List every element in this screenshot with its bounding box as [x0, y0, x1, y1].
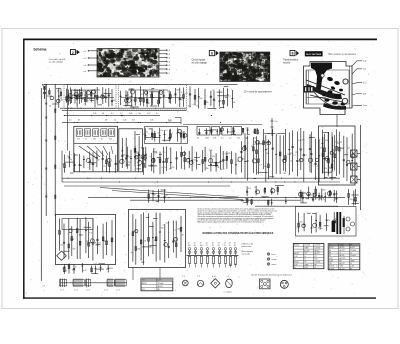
svg-text:HT: HT	[329, 255, 331, 257]
svg-text:2x: 2x	[315, 267, 317, 269]
svg-text:am: am	[42, 286, 45, 288]
IF transformer can outline A	[197, 127, 210, 136]
svg-text:2n2: 2n2	[256, 172, 259, 174]
antenna feed vertical line A	[45, 84, 47, 216]
svg-text:2x: 2x	[350, 263, 352, 265]
svg-text:125mW: 125mW	[315, 262, 321, 264]
svg-text:BF: BF	[350, 268, 352, 270]
svg-text:560: 560	[323, 190, 326, 192]
svg-text:4 bl: 4 bl	[363, 93, 367, 95]
svg-text:rouge: rouge	[272, 259, 277, 261]
svg-text:560: 560	[113, 100, 116, 102]
svg-text:polarisation: polarisation	[242, 245, 252, 248]
table transistor voltages	[293, 244, 324, 270]
antenna matching input components	[47, 88, 62, 108]
PCB photograph: FM RF block solder side	[94, 47, 163, 80]
transformer interior hookup wires	[306, 80, 345, 105]
legend symbol potentiometer top view circle 2	[197, 276, 204, 286]
tone control network components	[246, 186, 284, 197]
wire from AF box down to switch row A	[132, 268, 134, 281]
volume control coupling components	[148, 189, 168, 203]
svg-text:1 br: 1 br	[363, 68, 367, 71]
svg-text:2n2: 2n2	[107, 165, 110, 167]
svg-text:220: 220	[242, 159, 245, 161]
labels row between tuner buses	[66, 113, 172, 121]
long wire lower routing to power supply	[255, 205, 338, 207]
svg-text:68: 68	[154, 194, 156, 196]
svg-text:10n: 10n	[138, 113, 141, 115]
table puissance des transistors	[141, 278, 173, 291]
svg-text:0,47: 0,47	[168, 120, 172, 122]
svg-text:68: 68	[98, 159, 100, 161]
right vertical rail to output connectors	[360, 125, 362, 210]
svg-text:B 30: B 30	[212, 276, 216, 278]
svg-text:330: 330	[349, 199, 352, 201]
svg-text:1 2 3: 1 2 3	[116, 290, 120, 292]
svg-text:4,7: 4,7	[185, 159, 188, 161]
IF transformer can outline D	[234, 127, 242, 136]
section label box 8 with arrow	[290, 51, 299, 56]
svg-text:47k: 47k	[129, 96, 132, 98]
bus wire AM line	[62, 122, 181, 124]
driver stage components	[303, 130, 339, 182]
detector and AGC components	[182, 146, 239, 175]
scan noise speckle overlay	[26, 41, 375, 296]
svg-text:68: 68	[102, 113, 104, 115]
svg-text:15k: 15k	[329, 168, 332, 170]
power transformer mechanical drawing outline	[304, 62, 353, 115]
svg-text:5p: 5p	[131, 252, 133, 254]
schematic border frame left edge	[23, 39, 25, 299]
svg-text:8,2: 8,2	[323, 198, 326, 200]
svg-text:0,1: 0,1	[221, 138, 223, 140]
svg-text:15k: 15k	[225, 97, 228, 99]
svg-text:BF: BF	[340, 260, 342, 262]
FM antenna input stage components	[58, 88, 82, 108]
third IF transformer row internals	[198, 127, 258, 135]
svg-text:0,1: 0,1	[156, 113, 159, 115]
svg-text:Schéma: Schéma	[33, 47, 46, 51]
wire from AF box down to switch row B	[159, 268, 161, 281]
PCB photograph: main board component side	[217, 50, 272, 84]
svg-text:3,3k: 3,3k	[72, 270, 75, 272]
svg-text:1 2 3: 1 2 3	[86, 290, 90, 292]
svg-text:1/2 = point de raccordement: 1/2 = point de raccordement	[244, 90, 272, 93]
svg-text:secteur: secteur	[283, 62, 291, 65]
coil pack labels row	[77, 139, 112, 141]
svg-text:HT: HT	[304, 262, 306, 264]
svg-text:0,3W: 0,3W	[158, 280, 162, 282]
svg-text:1k: 1k	[139, 166, 141, 168]
legend symbol transistor socket square with holes	[260, 279, 271, 289]
svg-text:470: 470	[77, 139, 80, 141]
svg-text:2 gr: 2 gr	[363, 60, 367, 63]
svg-text:0,47: 0,47	[147, 113, 151, 115]
svg-text:560: 560	[67, 156, 70, 158]
svg-text:1k: 1k	[101, 95, 103, 97]
svg-text:0,3W: 0,3W	[329, 260, 333, 262]
FM RF amplifier stage components	[67, 87, 115, 107]
svg-text:82: 82	[340, 142, 342, 144]
svg-text:560: 560	[161, 228, 164, 230]
vertical test point wire right of IF cans	[271, 118, 278, 136]
svg-text:2x: 2x	[350, 253, 352, 255]
svg-text:BF: BF	[350, 245, 352, 247]
black header label BLOC SECTEUR	[305, 51, 323, 56]
svg-text:0,47: 0,47	[62, 269, 66, 271]
mains voltage selector block hatched	[304, 86, 314, 93]
svg-text:2n2: 2n2	[164, 167, 167, 169]
capacitor legend caption lines left group	[242, 244, 254, 256]
svg-text:10n: 10n	[160, 130, 163, 132]
svg-text:0,1: 0,1	[253, 132, 256, 134]
svg-text:1,2: 1,2	[328, 196, 331, 198]
top rail of tuner band	[44, 84, 238, 86]
internal rail inside FM IF shield	[121, 97, 185, 99]
svg-text:C = métal: C = métal	[224, 290, 232, 293]
legend symbol electrolytic can	[226, 276, 233, 288]
svg-text:BLOC SECTEUR: BLOC SECTEUR	[306, 54, 322, 56]
svg-text:BC148: BC148	[329, 266, 334, 268]
coil pack tuning arrows diagonals	[79, 146, 113, 158]
svg-text:NOMENCLATURE DES CONDENSATEURS: NOMENCLATURE DES CONDENSATEURS ÉLECTROCH…	[203, 232, 274, 235]
long diagonal routing wire to switch bank 2	[112, 191, 243, 200]
svg-text:1W: 1W	[304, 253, 307, 255]
svg-text:47k: 47k	[172, 167, 175, 169]
svg-text:2x: 2x	[294, 259, 296, 261]
short top rail segment in FM front-end	[70, 89, 100, 91]
FM IF output link components	[188, 86, 235, 108]
svg-text:1,2: 1,2	[167, 91, 170, 93]
legend symbol potentiometer top view circle 1	[182, 276, 188, 286]
svg-text:4,7: 4,7	[101, 139, 103, 141]
coil pack box 2 oscillator coils	[119, 129, 143, 172]
pin leader lines and labels left of FM board photo	[84, 50, 98, 73]
svg-text:8: 8	[292, 52, 294, 56]
svg-text:330: 330	[283, 173, 286, 175]
svg-text:68: 68	[251, 146, 253, 148]
switch assembly symbol row bottom left	[60, 279, 128, 288]
svg-text:125mW: 125mW	[304, 245, 310, 247]
svg-text:1k: 1k	[65, 271, 67, 273]
svg-text:0,47: 0,47	[221, 169, 225, 171]
svg-text:330: 330	[151, 90, 154, 92]
svg-text:5p: 5p	[182, 132, 184, 134]
svg-text:330: 330	[245, 198, 248, 200]
svg-text:3,3k: 3,3k	[213, 138, 216, 140]
svg-text:0,1: 0,1	[305, 155, 308, 157]
svg-text:4,7: 4,7	[181, 92, 184, 94]
svg-text:5p: 5p	[290, 160, 292, 162]
svg-text:82: 82	[335, 218, 337, 220]
svg-text:4,7: 4,7	[259, 164, 262, 166]
svg-text:2n2: 2n2	[103, 166, 106, 168]
oscillator coil components	[121, 131, 141, 169]
transformer lead wires and terminal labels	[352, 60, 368, 107]
decoder diamond bridge symbol	[57, 251, 67, 260]
svg-text:560: 560	[225, 153, 228, 155]
svg-text:8,2: 8,2	[220, 100, 223, 102]
long wire second routing line	[130, 199, 300, 201]
mains transformer symbol thick bars	[337, 212, 340, 234]
svg-text:560: 560	[266, 153, 269, 155]
svg-text:100k: 100k	[209, 150, 213, 152]
labels under IF can row	[197, 138, 256, 140]
svg-text:Électrolytique: Électrolytique	[242, 250, 254, 253]
svg-text:BC148: BC148	[294, 245, 299, 247]
svg-text:160: 160	[200, 245, 203, 247]
svg-text:8,2: 8,2	[165, 195, 168, 197]
svg-text:0,1: 0,1	[150, 156, 153, 158]
svg-text:220: 220	[128, 162, 131, 164]
rectifier diode circles	[344, 216, 355, 234]
svg-text:5p: 5p	[114, 120, 116, 122]
svg-text:100k: 100k	[287, 154, 291, 156]
power supply section outline	[296, 207, 357, 237]
svg-text:25: 25	[229, 245, 231, 247]
svg-text:82: 82	[182, 234, 184, 236]
svg-text:10n: 10n	[123, 154, 126, 156]
svg-text:15k: 15k	[237, 138, 240, 140]
svg-text:2x: 2x	[329, 245, 331, 247]
svg-text:Transformateur: Transformateur	[283, 59, 299, 62]
svg-text:Bloc secteur vu de dessous: Bloc secteur vu de dessous	[329, 53, 357, 56]
svg-text:1,2: 1,2	[229, 138, 231, 140]
svg-text:100k: 100k	[137, 249, 141, 251]
antenna symbol	[43, 85, 47, 100]
audio preamplifier components	[238, 128, 305, 182]
svg-text:BF: BF	[329, 250, 331, 252]
caption text for main board photo	[192, 59, 208, 65]
svg-text:125mW: 125mW	[350, 250, 356, 252]
svg-text:2n2: 2n2	[166, 223, 169, 225]
transformer terminal lugs black ovals	[322, 76, 345, 108]
transformer winding strap black curved shape	[306, 84, 342, 99]
svg-text:100k: 100k	[95, 245, 99, 247]
svg-text:82: 82	[179, 134, 181, 136]
svg-text:0,47: 0,47	[62, 163, 66, 165]
svg-text:2x: 2x	[340, 253, 342, 255]
svg-text:P 2: P 2	[197, 276, 200, 278]
svg-text:560: 560	[73, 248, 76, 250]
svg-text:125mW: 125mW	[158, 283, 164, 285]
svg-text:1,2: 1,2	[66, 113, 69, 115]
transformer clamp bracket large black shape	[311, 63, 332, 94]
svg-text:25: 25	[224, 245, 226, 247]
svg-text:4,7: 4,7	[165, 130, 168, 132]
stereo decoder components	[59, 217, 113, 260]
svg-text:4,7: 4,7	[163, 225, 166, 227]
svg-text:BF: BF	[315, 264, 317, 266]
svg-text:330: 330	[206, 168, 209, 170]
transformer mounting screws white circles	[321, 74, 348, 104]
svg-text:BF: BF	[158, 289, 160, 291]
svg-text:10n: 10n	[93, 139, 96, 141]
svg-text:64: 64	[234, 245, 236, 247]
schematic border frame top edge	[23, 38, 377, 40]
short top rail segment in FM IF shield	[128, 89, 168, 91]
svg-text:2n2: 2n2	[169, 169, 172, 171]
svg-text:470: 470	[228, 153, 231, 155]
svg-text:Vue de dessous des transistors: Vue de dessous des transistors et du red…	[251, 274, 292, 277]
svg-text:vu côté câblage: vu côté câblage	[49, 61, 64, 64]
svg-text:brun: brun	[272, 254, 276, 256]
svg-text:125mW: 125mW	[315, 245, 321, 247]
svg-text:220: 220	[212, 90, 215, 92]
notes paragraph text block	[198, 208, 278, 224]
svg-text:47k: 47k	[60, 244, 63, 246]
caption text for FM circuit board photo	[49, 58, 66, 64]
svg-text:2x: 2x	[350, 258, 352, 260]
svg-text:220: 220	[143, 134, 146, 136]
svg-text:Circuit équipé: Circuit équipé	[192, 59, 207, 62]
FM mixer and oscillator stage components	[120, 86, 188, 108]
svg-text:64: 64	[194, 245, 196, 247]
svg-text:C 5: C 5	[226, 276, 229, 278]
svg-text:82: 82	[126, 98, 128, 100]
svg-text:2x: 2x	[304, 259, 306, 261]
FM IF shield box dashed	[119, 85, 187, 111]
svg-text:P 1: P 1	[182, 276, 185, 278]
svg-text:0,47: 0,47	[184, 93, 188, 95]
section label box 6 with arrow	[209, 51, 218, 56]
coil pack inner trimmer boxes	[74, 129, 117, 144]
audio output stage box	[319, 126, 356, 185]
colour code legend with circled dots	[267, 253, 276, 266]
svg-text:1k: 1k	[136, 153, 138, 155]
svg-text:vue à plat: vue à plat	[242, 253, 251, 256]
svg-text:0,47: 0,47	[83, 270, 87, 272]
svg-text:1,2: 1,2	[293, 155, 296, 157]
output coupling components	[348, 189, 359, 206]
svg-text:220: 220	[129, 156, 132, 158]
mixer oscillator enclosure nested outlines	[62, 151, 340, 187]
svg-text:3,3k: 3,3k	[93, 113, 96, 115]
transformer inner core lamination lines	[306, 66, 350, 108]
svg-text:100k: 100k	[205, 138, 209, 140]
svg-text:10n: 10n	[145, 94, 148, 96]
svg-text:0,1: 0,1	[69, 120, 72, 122]
legend symbol diamond bridge outline	[211, 276, 220, 288]
svg-text:330: 330	[98, 96, 101, 98]
IF strip enclosure box	[145, 127, 188, 144]
svg-text:220: 220	[155, 152, 158, 154]
svg-text:1 2 3: 1 2 3	[104, 290, 108, 292]
svg-text:BF: BF	[329, 253, 331, 255]
svg-text:160: 160	[188, 245, 191, 247]
svg-text:2x: 2x	[294, 267, 296, 269]
antenna feed vertical line B	[54, 84, 56, 216]
long wire mid horizontal routing line	[88, 197, 345, 199]
first IF transformer cluster	[143, 128, 187, 143]
loudspeaker DIN jack symbols column	[351, 150, 361, 183]
left vertical supply rail	[40, 88, 42, 281]
long wire to third IF transformer row	[183, 124, 262, 126]
svg-text:jaune: jaune	[271, 264, 277, 266]
AF amplifier section components	[131, 212, 184, 265]
svg-text:2n2: 2n2	[89, 232, 92, 234]
solder junction dots on bus wires	[64, 108, 316, 199]
svg-text:100k: 100k	[299, 149, 303, 151]
svg-text:10n: 10n	[188, 106, 191, 108]
svg-text:1,2: 1,2	[120, 113, 123, 115]
svg-text:220: 220	[109, 139, 112, 141]
svg-text:3,3k: 3,3k	[324, 168, 327, 170]
transformer bottom terminal strip black band	[323, 103, 346, 110]
stereo decoder section box	[56, 215, 116, 265]
audio output stage components	[322, 129, 356, 181]
svg-text:1k: 1k	[161, 167, 163, 169]
components on antenna feed lines	[45, 103, 56, 198]
svg-text:560: 560	[299, 221, 302, 223]
IF transformer can outline B	[212, 127, 220, 136]
svg-text:82: 82	[144, 241, 146, 243]
AM converter stage components	[62, 151, 119, 174]
schematic border frame bottom edge	[23, 297, 376, 299]
svg-text:125mW: 125mW	[315, 248, 321, 250]
svg-text:2n2: 2n2	[144, 160, 147, 162]
bus wire AGC line under tuner	[60, 107, 187, 109]
decoder inner shield sub-box	[62, 219, 93, 230]
svg-text:15k: 15k	[206, 102, 209, 104]
svg-text:1,2: 1,2	[83, 91, 86, 93]
pin leader lines and labels right of FM board photo	[159, 50, 171, 75]
svg-text:2: 2	[72, 51, 74, 55]
svg-text:3 m: 3 m	[275, 121, 278, 123]
svg-text:3,3k: 3,3k	[193, 160, 196, 162]
svg-text:5p: 5p	[70, 159, 72, 161]
bus wire detector output line	[64, 115, 160, 117]
svg-text:15k: 15k	[333, 151, 336, 153]
feedback network components	[298, 186, 337, 201]
svg-text:0,47: 0,47	[93, 264, 97, 266]
svg-text:12: 12	[146, 132, 148, 134]
vertical wire left edge of FM shield	[67, 85, 69, 151]
routing to power supply components	[241, 198, 287, 206]
svg-text:6: 6	[211, 52, 213, 56]
svg-text:2n2: 2n2	[248, 188, 251, 190]
svg-text:3,3k: 3,3k	[212, 156, 215, 158]
svg-text:1k: 1k	[85, 139, 87, 141]
svg-text:1k: 1k	[94, 156, 96, 158]
svg-text:3,3k: 3,3k	[123, 120, 126, 122]
svg-text:47k: 47k	[158, 132, 161, 134]
coil pack box 1 AM tuner coils	[74, 126, 118, 172]
svg-text:64: 64	[218, 245, 220, 247]
corner wire turning down at end of detector line	[160, 116, 181, 125]
AF amplifier section box bottom middle	[129, 210, 186, 268]
svg-text:1 2 3: 1 2 3	[60, 290, 64, 292]
svg-text:220: 220	[254, 142, 257, 144]
svg-text:560: 560	[232, 129, 235, 131]
svg-text:1 2 3: 1 2 3	[74, 290, 78, 292]
svg-text:HT: HT	[315, 256, 317, 258]
svg-text:0,1: 0,1	[111, 113, 114, 115]
bus wire supply line under tuner	[62, 109, 187, 111]
power switch wiring components	[300, 191, 337, 204]
caption text: transformateur secteur	[283, 59, 299, 65]
svg-text:Circuit bloc de H.F.: Circuit bloc de H.F.	[49, 58, 66, 61]
svg-text:0,1: 0,1	[228, 95, 231, 97]
capacitor outline drawings row legend	[187, 243, 239, 268]
svg-text:0,3W: 0,3W	[350, 266, 354, 268]
svg-text:125mW: 125mW	[350, 255, 356, 257]
section label box 2 with arrow	[70, 50, 79, 55]
svg-text:470: 470	[327, 220, 330, 222]
svg-text:1,2: 1,2	[254, 187, 257, 189]
svg-text:47k: 47k	[318, 228, 321, 230]
table bandes et gammes	[328, 244, 360, 271]
